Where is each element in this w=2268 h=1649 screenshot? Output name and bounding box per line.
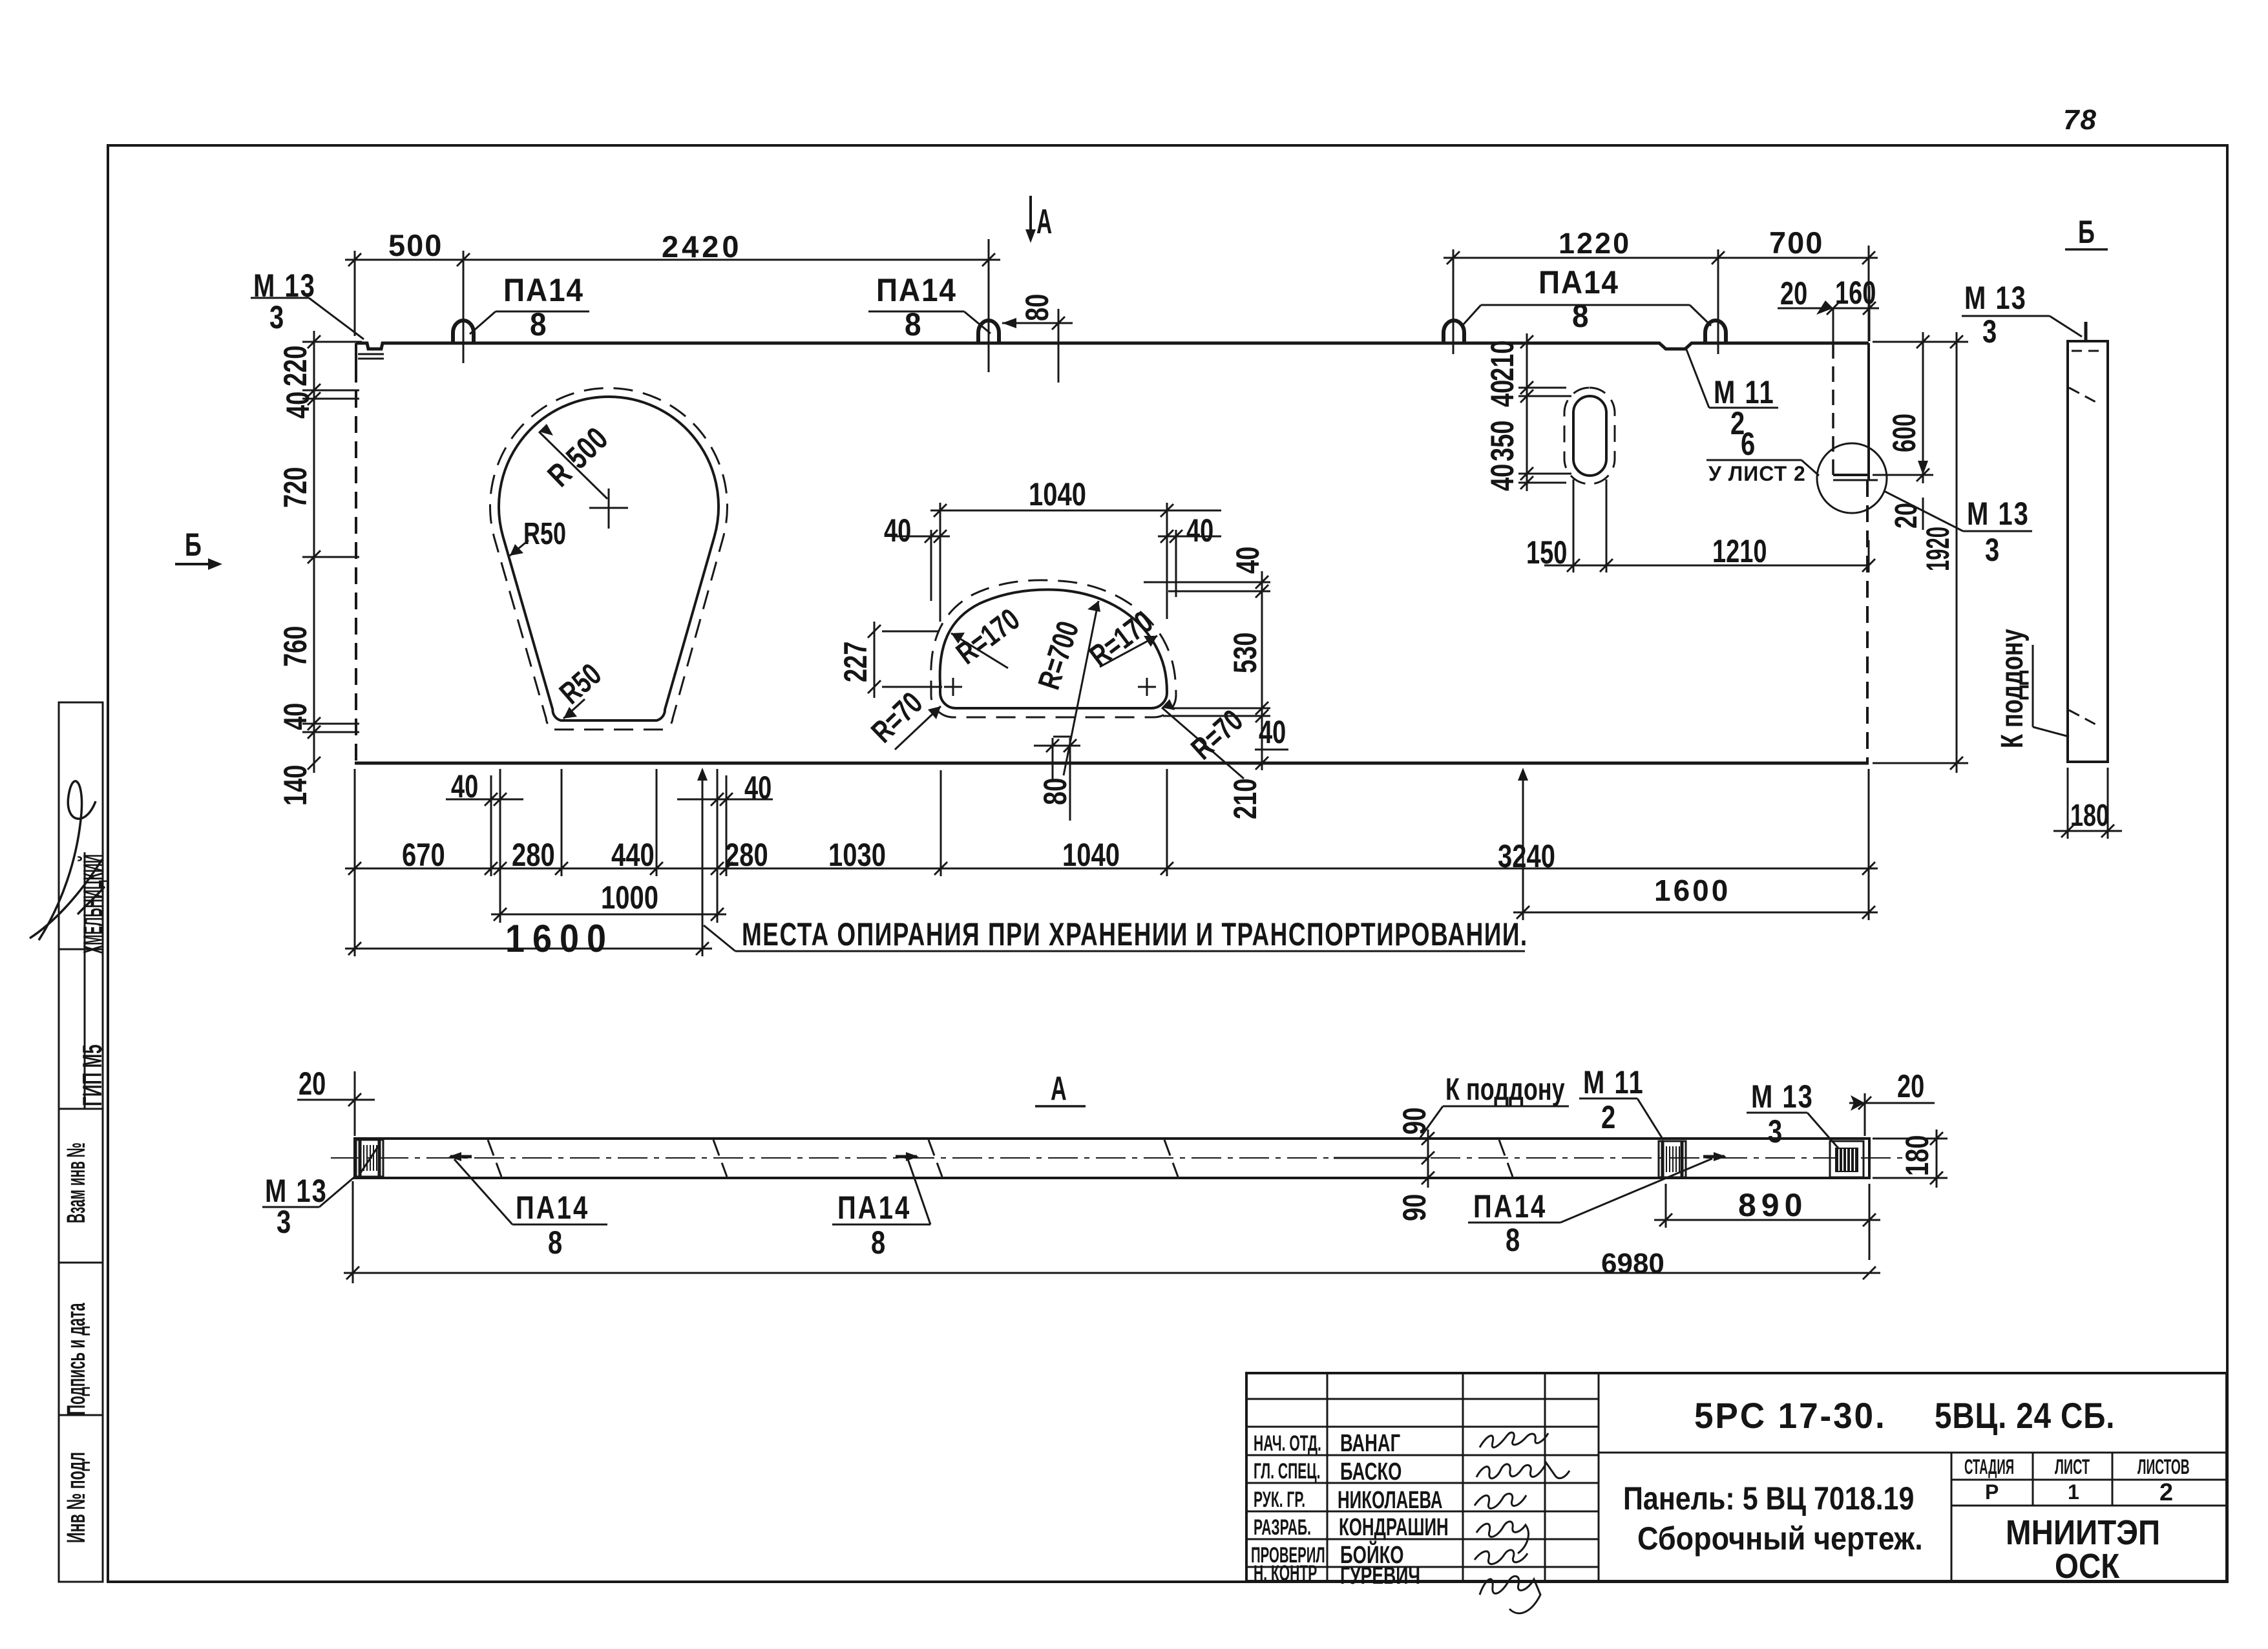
side view dashed details [2069,351,2104,726]
svg-text:40: 40 [744,770,772,806]
svg-text:160: 160 [1835,275,1876,311]
svg-text:90: 90 [1397,1194,1433,1221]
svg-text:СТАДИЯ: СТАДИЯ [1964,1455,2014,1479]
svg-text:760: 760 [278,626,313,667]
plan view: panel left edge (dashed) [355,343,357,763]
svg-text:20: 20 [1889,503,1923,529]
oval hole dashed offset outline [1564,388,1615,484]
D-hole R=70 right label [1162,699,1244,779]
svg-text:40: 40 [451,769,478,804]
oval hole 150 and 1210 dims [1544,479,1869,572]
side view 180 dim [2053,768,2122,839]
svg-text:ХМЕЛЬНИЦКИЙ: ХМЕЛЬНИЦКИЙ [76,854,108,954]
svg-text:ГУРЕВИЧ: ГУРЕВИЧ [1340,1561,1420,1589]
svg-text:3: 3 [277,1204,291,1240]
svg-text:40: 40 [1186,513,1213,549]
detail circle [1817,443,1887,513]
svg-text:РАЗРАБ.: РАЗРАБ. [1254,1515,1311,1539]
svg-text:40: 40 [1259,715,1286,750]
D-shaped hole solid outline [940,590,1167,708]
sidebar text ХМЕЛЬНИЦКИЙ [76,854,108,954]
dim 1920 right [1873,332,1968,773]
title block frame [1246,1373,2227,1581]
svg-text:140: 140 [278,765,313,806]
title block horizontal dividers [1246,1399,2227,1567]
svg-text:90: 90 [1397,1108,1433,1135]
dim 20 small right [1889,503,1923,529]
sidebar signature Khmelnitsky [30,781,105,940]
PA14/8 label no.1 [503,273,584,342]
svg-text:M 13: M 13 [1967,496,2030,532]
svg-text:150: 150 [1526,535,1567,571]
svg-text:78: 78 [2063,104,2097,136]
bottom row ticks [348,862,1875,875]
dim 600 right [1873,332,1968,483]
plan view: panel bottom edge [355,762,1869,765]
svg-text:M 13: M 13 [1751,1078,1814,1115]
section 6980 dim [344,1181,1880,1283]
svg-text:M 11: M 11 [1583,1064,1644,1100]
svg-text:У ЛИСТ 2: У ЛИСТ 2 [1708,462,1806,485]
svg-text:8: 8 [548,1224,562,1261]
svg-text:ПА14: ПА14 [876,273,957,308]
dim text 500 [388,228,443,262]
D-hole right chain 40/530/40/210 [1144,571,1270,770]
PA14/8 label top right (loops 3-4) [1538,265,1619,334]
left margin attachment boxes [59,702,103,1582]
D-hole 80 dim below [1034,737,1080,821]
svg-text:210: 210 [1228,779,1263,819]
section M13/3 label left [265,1173,328,1240]
svg-text:Р: Р [1985,1480,1999,1504]
svg-text:БАСКО: БАСКО [1340,1458,1402,1486]
svg-text:Б: Б [2078,215,2095,250]
svg-text:5ВЦ. 24 СБ.: 5ВЦ. 24 СБ. [1935,1396,2115,1436]
svg-text:180: 180 [1900,1135,1935,1176]
svg-text:6: 6 [1741,426,1755,462]
svg-text:К поддону: К поддону [1445,1072,1565,1106]
section PA14/8 label B [837,1190,911,1261]
teardrop center cross [589,488,628,529]
svg-text:600: 600 [1887,414,1922,452]
dim ticks top row [348,251,1875,266]
svg-text:1220: 1220 [1559,227,1631,260]
bottom row texts [402,837,445,873]
side view Б body [2068,341,2108,762]
svg-text:МЕСТА ОПИРАНИЯ ПРИ ХРАНЕНИИ И: МЕСТА ОПИРАНИЯ ПРИ ХРАНЕНИИ И ТРАНСПОРТИ… [742,917,1528,953]
section 890 dim [1654,1184,1880,1260]
section M11/2 label [1583,1064,1644,1135]
lifting loop PA14 no.1 [453,320,474,342]
section 90/90 dims [1334,1129,1434,1188]
svg-text:Инв № подл: Инв № подл [61,1452,90,1543]
svg-text:ЛИСТОВ: ЛИСТОВ [2137,1455,2190,1478]
svg-text:8: 8 [871,1224,885,1261]
40 sub-dims under panel [446,793,773,806]
svg-text:1040: 1040 [1062,837,1120,873]
dim text 1220 [1559,227,1631,260]
svg-text:ГЛ. СПЕЦ.: ГЛ. СПЕЦ. [1254,1458,1321,1483]
D-hole left corner cross [944,678,962,696]
dim text 700 [1769,226,1823,260]
svg-text:M 13: M 13 [265,1173,328,1209]
title block drawing codes [1694,1396,2115,1436]
svg-text:ГИП М5: ГИП М5 [78,1044,108,1106]
D-hole 40 left dim [894,530,950,601]
svg-text:Взам инв №: Взам инв № [61,1142,90,1223]
title block vertical dividers [1327,1373,2112,1581]
title block stage/sheet labels [1964,1455,2190,1506]
svg-text:40: 40 [1485,464,1520,491]
svg-text:ЛИСТ: ЛИСТ [2055,1455,2090,1478]
dim 1600 left [345,942,712,955]
teardrop R500 radius arrow and label [539,424,607,499]
D-shaped hole dashed offset outline [931,580,1176,717]
svg-text:280: 280 [725,837,768,873]
plan view: M13 corner mark lines [358,354,384,359]
note МЕСТА ОПИРАНИЯ ПРИ ХРАНЕНИИ И ТРАНСПОРТИРОВАНИИ [704,925,1525,951]
lifting loop PA14 no.2 [978,320,999,342]
title block organization [2006,1513,2160,1586]
svg-text:Н. КОНТР: Н. КОНТР [1254,1560,1317,1585]
svg-text:2420: 2420 [662,229,742,264]
dim 80 at loop 2 [1002,309,1073,383]
section support marks (dashed diagonals) [488,1140,1513,1177]
M13/3 label at detail circle [1967,496,2030,568]
dim 20/160 top right [1778,286,1879,342]
svg-text:1600: 1600 [1654,874,1730,907]
svg-text:ПА14: ПА14 [503,273,584,308]
svg-text:8: 8 [530,307,547,342]
oval hole solid outline [1573,396,1606,476]
M11/2 label [1714,374,1775,441]
svg-text:3: 3 [1985,532,1999,568]
section M13/3 label right [1751,1078,1814,1150]
svg-text:8: 8 [905,307,921,342]
title block names [1338,1430,1449,1589]
bottom dim row 670/280/440/280/1030/1040/3240 [345,769,1878,956]
svg-text:6980: 6980 [1601,1248,1664,1279]
D-hole R=70 left label [895,706,941,750]
svg-text:ПА14: ПА14 [1473,1188,1547,1224]
svg-text:40: 40 [1485,380,1520,407]
D-hole R=700 label [1064,601,1100,775]
D-hole 40 right dim [1158,530,1221,597]
section marker A (top) [1025,196,1036,243]
svg-text:40: 40 [1230,547,1266,574]
svg-text:К поддону: К поддону [1995,629,2029,748]
svg-text:Б: Б [185,527,202,563]
svg-text:1600: 1600 [505,917,614,960]
svg-text:ПА14: ПА14 [1538,265,1619,300]
svg-text:40: 40 [278,703,313,730]
svg-text:5PC 17-30.: 5PC 17-30. [1694,1396,1887,1436]
svg-text:ПА14: ПА14 [837,1190,911,1226]
svg-text:220: 220 [278,346,313,386]
svg-text:КОНДРАШИН: КОНДРАШИН [1339,1513,1449,1540]
sidebar text Взам инв № [61,1142,90,1223]
D-hole R=170 right label [1100,636,1157,667]
D-hole 227 dim [868,622,942,698]
svg-text:40: 40 [280,392,316,419]
top dimension line 500 / 2420 [345,239,1878,372]
svg-text:РУК. ГР.: РУК. ГР. [1254,1487,1305,1511]
svg-text:1210: 1210 [1712,534,1767,569]
svg-text:890: 890 [1738,1187,1807,1223]
section PA14 pointer dashes [448,1152,1727,1161]
К поддону label (plan right) [1995,629,2029,748]
svg-text:670: 670 [402,837,445,873]
svg-text:227: 227 [838,642,874,682]
svg-text:Подпись и дата: Подпись и дата [61,1303,90,1415]
teardrop hole solid outline [499,397,719,720]
section M13 insert right [1830,1141,1864,1177]
svg-text:20: 20 [1897,1069,1924,1104]
section PA14/8 label A [516,1190,589,1261]
support mark arrows (места опирания) [697,768,1528,956]
left dimension chain 220/40/720/760/40/140 [302,331,362,773]
plan view: top-right recess dashed edge [1833,343,1878,480]
svg-text:1030: 1030 [828,837,886,873]
D-hole top dim 1040 [930,503,1221,622]
section marker Б (left) [185,527,202,563]
svg-text:1000: 1000 [601,879,658,916]
6 / У ЛИСТ 2 detail label [1708,426,1806,485]
section 20 dim left [297,1071,375,1136]
svg-text:НИКОЛАЕВА: НИКОЛАЕВА [1338,1486,1442,1513]
plan view: panel top edge with M13 notch and M11 notch [356,343,1869,349]
svg-text:A: A [1051,1070,1067,1108]
sidebar text Инв № подл [61,1452,90,1543]
section PA14/8 label C [1473,1188,1547,1258]
svg-text:A: A [1036,202,1052,241]
section centerline [331,1157,1906,1159]
teardrop hole dashed offset outline [490,388,728,730]
svg-text:1040: 1040 [1029,476,1086,512]
section 180 dim right [1873,1129,1948,1188]
svg-text:40: 40 [884,513,911,549]
svg-text:ОСК: ОСК [2055,1546,2120,1586]
sidebar text ГИП М5 [78,1044,108,1106]
title block role labels [1251,1431,1325,1585]
PA14/8 label no.2 [876,273,957,342]
lifting loop PA14 no.3 [1444,320,1464,342]
svg-text:530: 530 [1228,633,1263,673]
svg-text:20: 20 [299,1066,326,1102]
svg-text:2: 2 [2159,1479,2173,1506]
M13/3 label top (to side view pin) [1964,280,2027,350]
svg-text:НАЧ. ОТД.: НАЧ. ОТД. [1254,1431,1321,1455]
section M11 insert [1659,1141,1686,1177]
svg-text:1: 1 [2068,1480,2079,1504]
section M13 insert left [356,1140,383,1177]
dim text 2420 [662,229,742,264]
left chain texts [278,346,313,386]
section A-A header [1051,1070,1067,1108]
left chain ticks [308,335,320,770]
svg-text:280: 280 [512,837,555,873]
M13/3 label top-left [253,268,316,335]
svg-text:3: 3 [1768,1113,1782,1150]
dim 1600 right [1513,906,1878,919]
section К поддону label [1445,1072,1565,1106]
section 20 dim right [1849,1093,1935,1136]
svg-text:720: 720 [278,467,313,508]
svg-text:ПА14: ПА14 [516,1190,589,1226]
svg-text:3: 3 [269,299,284,335]
svg-text:80: 80 [1020,294,1055,321]
teardrop R50 upper label [510,540,529,556]
svg-text:R50: R50 [523,516,566,551]
section A-A bar outline [355,1139,1869,1178]
svg-text:210: 210 [1485,341,1520,381]
page number 78 [2063,104,2097,136]
svg-text:Панель: 5 ВЦ 7018.19: Панель: 5 ВЦ 7018.19 [1623,1480,1914,1517]
lifting loop PA14 no.4 [1705,320,1726,342]
svg-text:2: 2 [1601,1099,1615,1135]
svg-text:M 13: M 13 [1964,280,2027,316]
svg-text:700: 700 [1769,226,1823,260]
title block main title [1623,1480,1923,1557]
oval hole left dim chain 210/40/350/40 [1518,333,1571,491]
side view Б header [2078,215,2095,250]
D-hole right corner cross [1138,678,1156,696]
D-hole R=170 left label [951,633,1008,668]
dim 1000 [491,908,726,921]
svg-text:180: 180 [2070,798,2109,832]
title block signatures [1475,1433,1570,1613]
svg-text:350: 350 [1485,421,1520,461]
svg-text:3: 3 [1982,313,1997,350]
svg-text:3240: 3240 [1498,838,1555,874]
svg-text:500: 500 [388,228,443,262]
plan view: panel right edge solid part [1867,343,1869,763]
svg-text:Сборочный чертеж.: Сборочный чертеж. [1637,1521,1923,1557]
sidebar text Подпись и дата [61,1303,90,1415]
svg-text:1920: 1920 [1919,527,1955,571]
svg-text:440: 440 [611,837,655,873]
teardrop R50 lower label [563,699,585,719]
svg-text:80: 80 [1038,778,1073,805]
svg-text:20: 20 [1780,276,1807,311]
svg-text:8: 8 [1506,1222,1520,1258]
svg-text:ВАНАГ: ВАНАГ [1340,1430,1400,1457]
side view pin M13 [2084,322,2088,341]
